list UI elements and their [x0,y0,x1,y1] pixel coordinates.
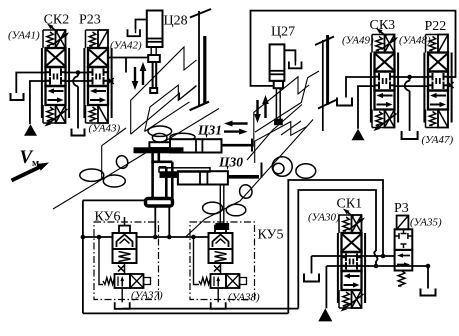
valve SK1 [338,209,365,312]
bus SK3-R22 [395,76,429,78]
svg-text:(УА37): (УА37) [131,290,163,302]
outer pipe loop / enclosure bottom-left [82,200,84,313]
conveyor diagonal left [53,109,219,210]
common drain line [122,308,298,310]
svg-text:Р22: Р22 [425,19,447,34]
svg-text:(УА35): (УА35) [410,217,442,229]
relief unit KU6 dash-dot enclosure [94,222,159,300]
svg-text:(УА49): (УА49) [342,35,374,47]
wire SK3 left port B [358,86,375,129]
pipes barrel to bus [154,207,156,238]
pressure triangle CK1 [318,308,332,321]
CK1 inner pipe box [298,190,376,309]
svg-text:Ц28: Ц28 [164,14,188,29]
rollers at C31 [148,126,172,136]
wire P3 to tank [427,266,429,289]
wire bus SK2-R23 lower [66,80,89,82]
valve SK2 [42,24,69,127]
wire down to tank with hop [77,73,79,77]
cylinder C27 [270,44,285,124]
C27 port bracket [284,50,295,61]
junction [407,75,412,80]
support bar C30 [160,172,178,177]
C28 port bracket [128,29,141,36]
cylinder C28 [147,11,163,94]
pilot 2/2 solenoid valve KU5 [199,274,247,309]
branch pipe step to right [151,161,172,164]
wire to tank CK1 left [311,256,313,274]
connector block [216,224,229,230]
bus1 [312,255,395,257]
conveyor diagonal right [185,120,313,238]
KU5 drain loop [194,237,200,285]
tank under SK2 left [11,93,24,100]
cylinder C31 [149,139,252,153]
svg-text:(УА42): (УА42) [110,40,142,52]
manifold barrel [146,199,173,207]
stub to KU6 cap [124,217,126,226]
relief unit KU5 dash-dot enclosure [190,222,255,300]
svg-text:Ц31: Ц31 [197,123,222,138]
wire R23 to cyl C28 [108,57,148,59]
tank P3 [421,289,436,296]
bus line bottom [83,236,113,238]
saw frame right [315,37,334,46]
motion arrows C27 [256,100,258,118]
svg-text:СК2: СК2 [44,13,70,28]
pressure triangle SK3 [352,129,365,141]
wire SK2 left port B [30,81,46,124]
tank center [402,131,418,139]
motion arrows C28 [134,67,136,85]
junction [76,70,81,75]
wire to tank with hop [409,77,411,81]
tank under R23 [72,129,85,136]
relief valve KU6 [113,226,137,274]
enclosure box top-right [251,11,456,86]
svg-text:Р3: Р3 [394,201,409,216]
junctions [81,235,86,240]
svg-text:Р23: Р23 [79,13,101,28]
bus2 [326,265,428,267]
closed port x R23 [108,80,114,82]
svg-text:(УА43): (УА43) [89,123,121,135]
relief valve KU5 [209,226,233,274]
wire to triangle [325,266,327,308]
svg-text:Ц27: Ц27 [271,25,295,40]
svg-text:(УА38): (УА38) [228,292,260,304]
svg-text:СК3: СК3 [370,18,396,33]
wire SK3 left port A [346,77,375,98]
closed port x R22 [448,85,453,87]
rollers at KU5 [203,202,223,214]
pipe C30 down to KU5 [219,185,221,224]
motion arrows C31 [229,122,248,124]
tank CK1 left [304,274,319,282]
svg-text:Ц30: Ц30 [218,155,243,170]
saw frame left [190,9,211,18]
KU6 drain loop [99,237,103,285]
rollers left [80,169,104,181]
valve SK3 [371,28,398,131]
pipe pair C31 down [151,148,154,199]
pressure triangle SK2 [24,124,37,136]
svg-text:СК1: СК1 [337,197,363,212]
svg-text:КУ5: КУ5 [258,228,284,243]
svg-text:(УА47): (УА47) [422,134,454,146]
velocity arrow [12,165,44,180]
workpiece boards right [254,77,309,147]
bus SK3-R22 lower [395,85,429,87]
pipe to C28 top port [136,20,147,30]
crossing hop on inner box line [374,251,377,261]
rollers right [272,157,292,177]
CK1 outer pipe box [288,180,383,313]
cylinder C30 [159,163,262,185]
svg-text:(УА30): (УА30) [308,212,340,224]
workpiece boards left [131,47,197,134]
valve P3 [395,216,413,287]
wire SK2 left port A [16,73,45,94]
junctions [381,254,386,259]
pilot 2/2 solenoid valve KU6 [103,274,151,309]
valve R23 [84,30,111,123]
tank SK3 left [337,98,352,106]
valve R22 [424,35,451,128]
wire bus SK2-R23 [66,72,89,74]
support bar C31 [134,148,183,153]
svg-text:(УА41): (УА41) [8,30,40,42]
